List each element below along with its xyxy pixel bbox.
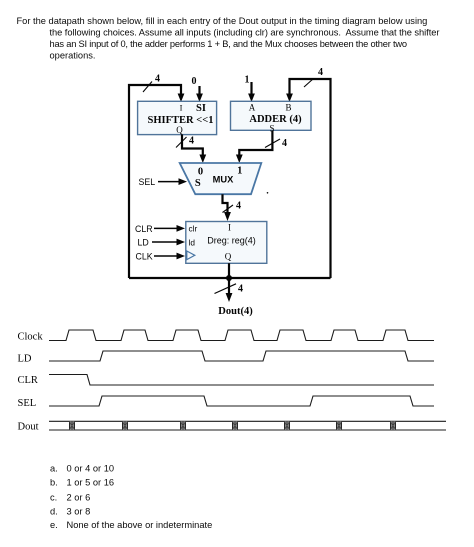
- svg-text:S: S: [195, 178, 201, 189]
- svg-text:clr: clr: [189, 224, 198, 234]
- wire bottom feedback bus: [129, 277, 331, 279]
- wire output stub below node: [228, 278, 230, 296]
- svg-text:ADDER (4): ADDER (4): [249, 114, 302, 125]
- svg-text:3 or 8: 3 or 8: [67, 507, 91, 517]
- Dout bus bottom rail: [49, 429, 446, 431]
- problem statement paragraph: [17, 16, 440, 61]
- svg-text:1: 1: [237, 166, 242, 177]
- svg-text:a.: a.: [50, 464, 58, 474]
- CLR waveform: [49, 375, 434, 386]
- arrowhead into adder A: [248, 94, 255, 103]
- svg-text:ld: ld: [189, 238, 196, 248]
- arrowhead into shifter SI: [196, 94, 203, 103]
- svg-text:c.: c.: [50, 492, 57, 502]
- svg-text:0 or 4 or 10: 0 or 4 or 10: [67, 464, 115, 474]
- svg-text:Dout(4): Dout(4): [218, 306, 253, 317]
- svg-text:LD: LD: [138, 237, 149, 247]
- bus-width slash on S-mux wire: [265, 139, 280, 148]
- arrowhead into mux 1: [236, 155, 243, 164]
- svg-text:SEL: SEL: [139, 177, 156, 187]
- wire LD to Dreg ld: [152, 241, 179, 243]
- svg-text:I: I: [180, 103, 183, 113]
- clk edge triangle on Dreg: [187, 251, 195, 260]
- svg-text:4: 4: [318, 67, 323, 78]
- arrowhead on Dout stub: [226, 293, 233, 302]
- svg-text:I: I: [228, 223, 231, 233]
- wire SI constant input: [198, 86, 200, 96]
- svg-text:4: 4: [282, 138, 287, 149]
- svg-text:0: 0: [198, 167, 203, 178]
- svg-text:CLR: CLR: [135, 224, 153, 234]
- svg-text:Dout: Dout: [18, 422, 39, 433]
- stray dot artifact right of mux: [267, 192, 269, 194]
- svg-text:2 or 6: 2 or 6: [67, 492, 91, 502]
- mux U3 trapezoid: [180, 163, 262, 194]
- bus-width slash on Dout stub: [215, 284, 237, 294]
- svg-text:B: B: [285, 103, 291, 113]
- svg-text:CLR: CLR: [18, 375, 38, 386]
- arrowhead into Dreg ld: [177, 239, 186, 246]
- svg-text:For the datapath shown below,: For the datapath shown below, fill in ea…: [17, 16, 428, 26]
- svg-text:SI: SI: [196, 103, 206, 114]
- wire shifter Q to mux input 0: [182, 135, 203, 157]
- svg-text:CLK: CLK: [136, 252, 153, 262]
- bus-width slash on mux-Dreg wire: [223, 205, 234, 213]
- arrowhead into Dreg clk: [177, 253, 186, 260]
- answer choices: [50, 464, 212, 530]
- adder U2 box: [231, 101, 312, 133]
- svg-text:has an SI input of 0, the adde: has an SI input of 0, the adder performs…: [50, 39, 407, 49]
- register Dreg box: [186, 222, 267, 264]
- shifter U1 box: [138, 101, 217, 135]
- bus-width slash on feedback-right wire: [304, 79, 314, 88]
- Dout transition hatch marks: [69, 421, 396, 430]
- bus-width slash on feedback-left wire: [143, 82, 152, 93]
- svg-text:operations.: operations.: [50, 51, 96, 61]
- svg-text:Q: Q: [225, 252, 232, 262]
- svg-text:SEL: SEL: [18, 398, 37, 409]
- arrowhead into mux 0: [199, 155, 206, 164]
- svg-text:Clock: Clock: [18, 332, 44, 343]
- svg-text:0: 0: [192, 76, 197, 87]
- wire arrowhead into shifter I: [178, 94, 185, 103]
- arrowhead into Dreg clr: [177, 225, 186, 232]
- Dout bus top rail: [49, 420, 446, 422]
- svg-text:Dreg: reg(4): Dreg: reg(4): [207, 236, 256, 246]
- svg-text:e.: e.: [50, 520, 58, 530]
- bus-width slash on Q-mux wire: [176, 137, 187, 148]
- svg-text:4: 4: [238, 284, 243, 295]
- wire Dreg Q down to output node: [228, 263, 230, 278]
- svg-text:MUX: MUX: [213, 175, 234, 185]
- wire CLR to Dreg clr: [154, 227, 179, 229]
- wire feedback-left from Q node to shifter I input: [129, 85, 181, 278]
- SEL waveform: [49, 396, 434, 406]
- svg-text:b.: b.: [50, 478, 58, 488]
- wire mux output to Dreg I: [223, 194, 228, 214]
- svg-text:the following choices. Assume: the following choices. Assume all inputs…: [50, 27, 440, 37]
- wire adder A constant input: [250, 82, 252, 96]
- svg-text:None of the above or indetermi: None of the above or indeterminate: [67, 520, 213, 530]
- wire SEL to mux select: [158, 181, 181, 183]
- svg-text:Q: Q: [176, 125, 183, 135]
- svg-text:4: 4: [189, 136, 194, 147]
- LD waveform: [49, 351, 434, 361]
- svg-text:4: 4: [155, 74, 160, 85]
- wire feedback-right from Q node to adder B input: [290, 79, 331, 278]
- arrowhead into mux S: [179, 178, 188, 185]
- svg-text:LD: LD: [18, 354, 32, 365]
- Clock waveform: [49, 330, 434, 341]
- svg-text:1: 1: [245, 75, 250, 86]
- arrowhead into Dreg I: [224, 212, 231, 221]
- svg-text:4: 4: [236, 201, 241, 212]
- wire CLK to Dreg clk: [154, 255, 179, 257]
- junction node on feedback bus: [226, 275, 232, 281]
- wire arrowhead into adder B: [286, 94, 293, 103]
- svg-text:d.: d.: [50, 507, 58, 517]
- svg-text:A: A: [249, 103, 256, 113]
- svg-text:1 or 5 or 16: 1 or 5 or 16: [67, 478, 115, 488]
- wire adder S to mux input 1: [239, 130, 272, 157]
